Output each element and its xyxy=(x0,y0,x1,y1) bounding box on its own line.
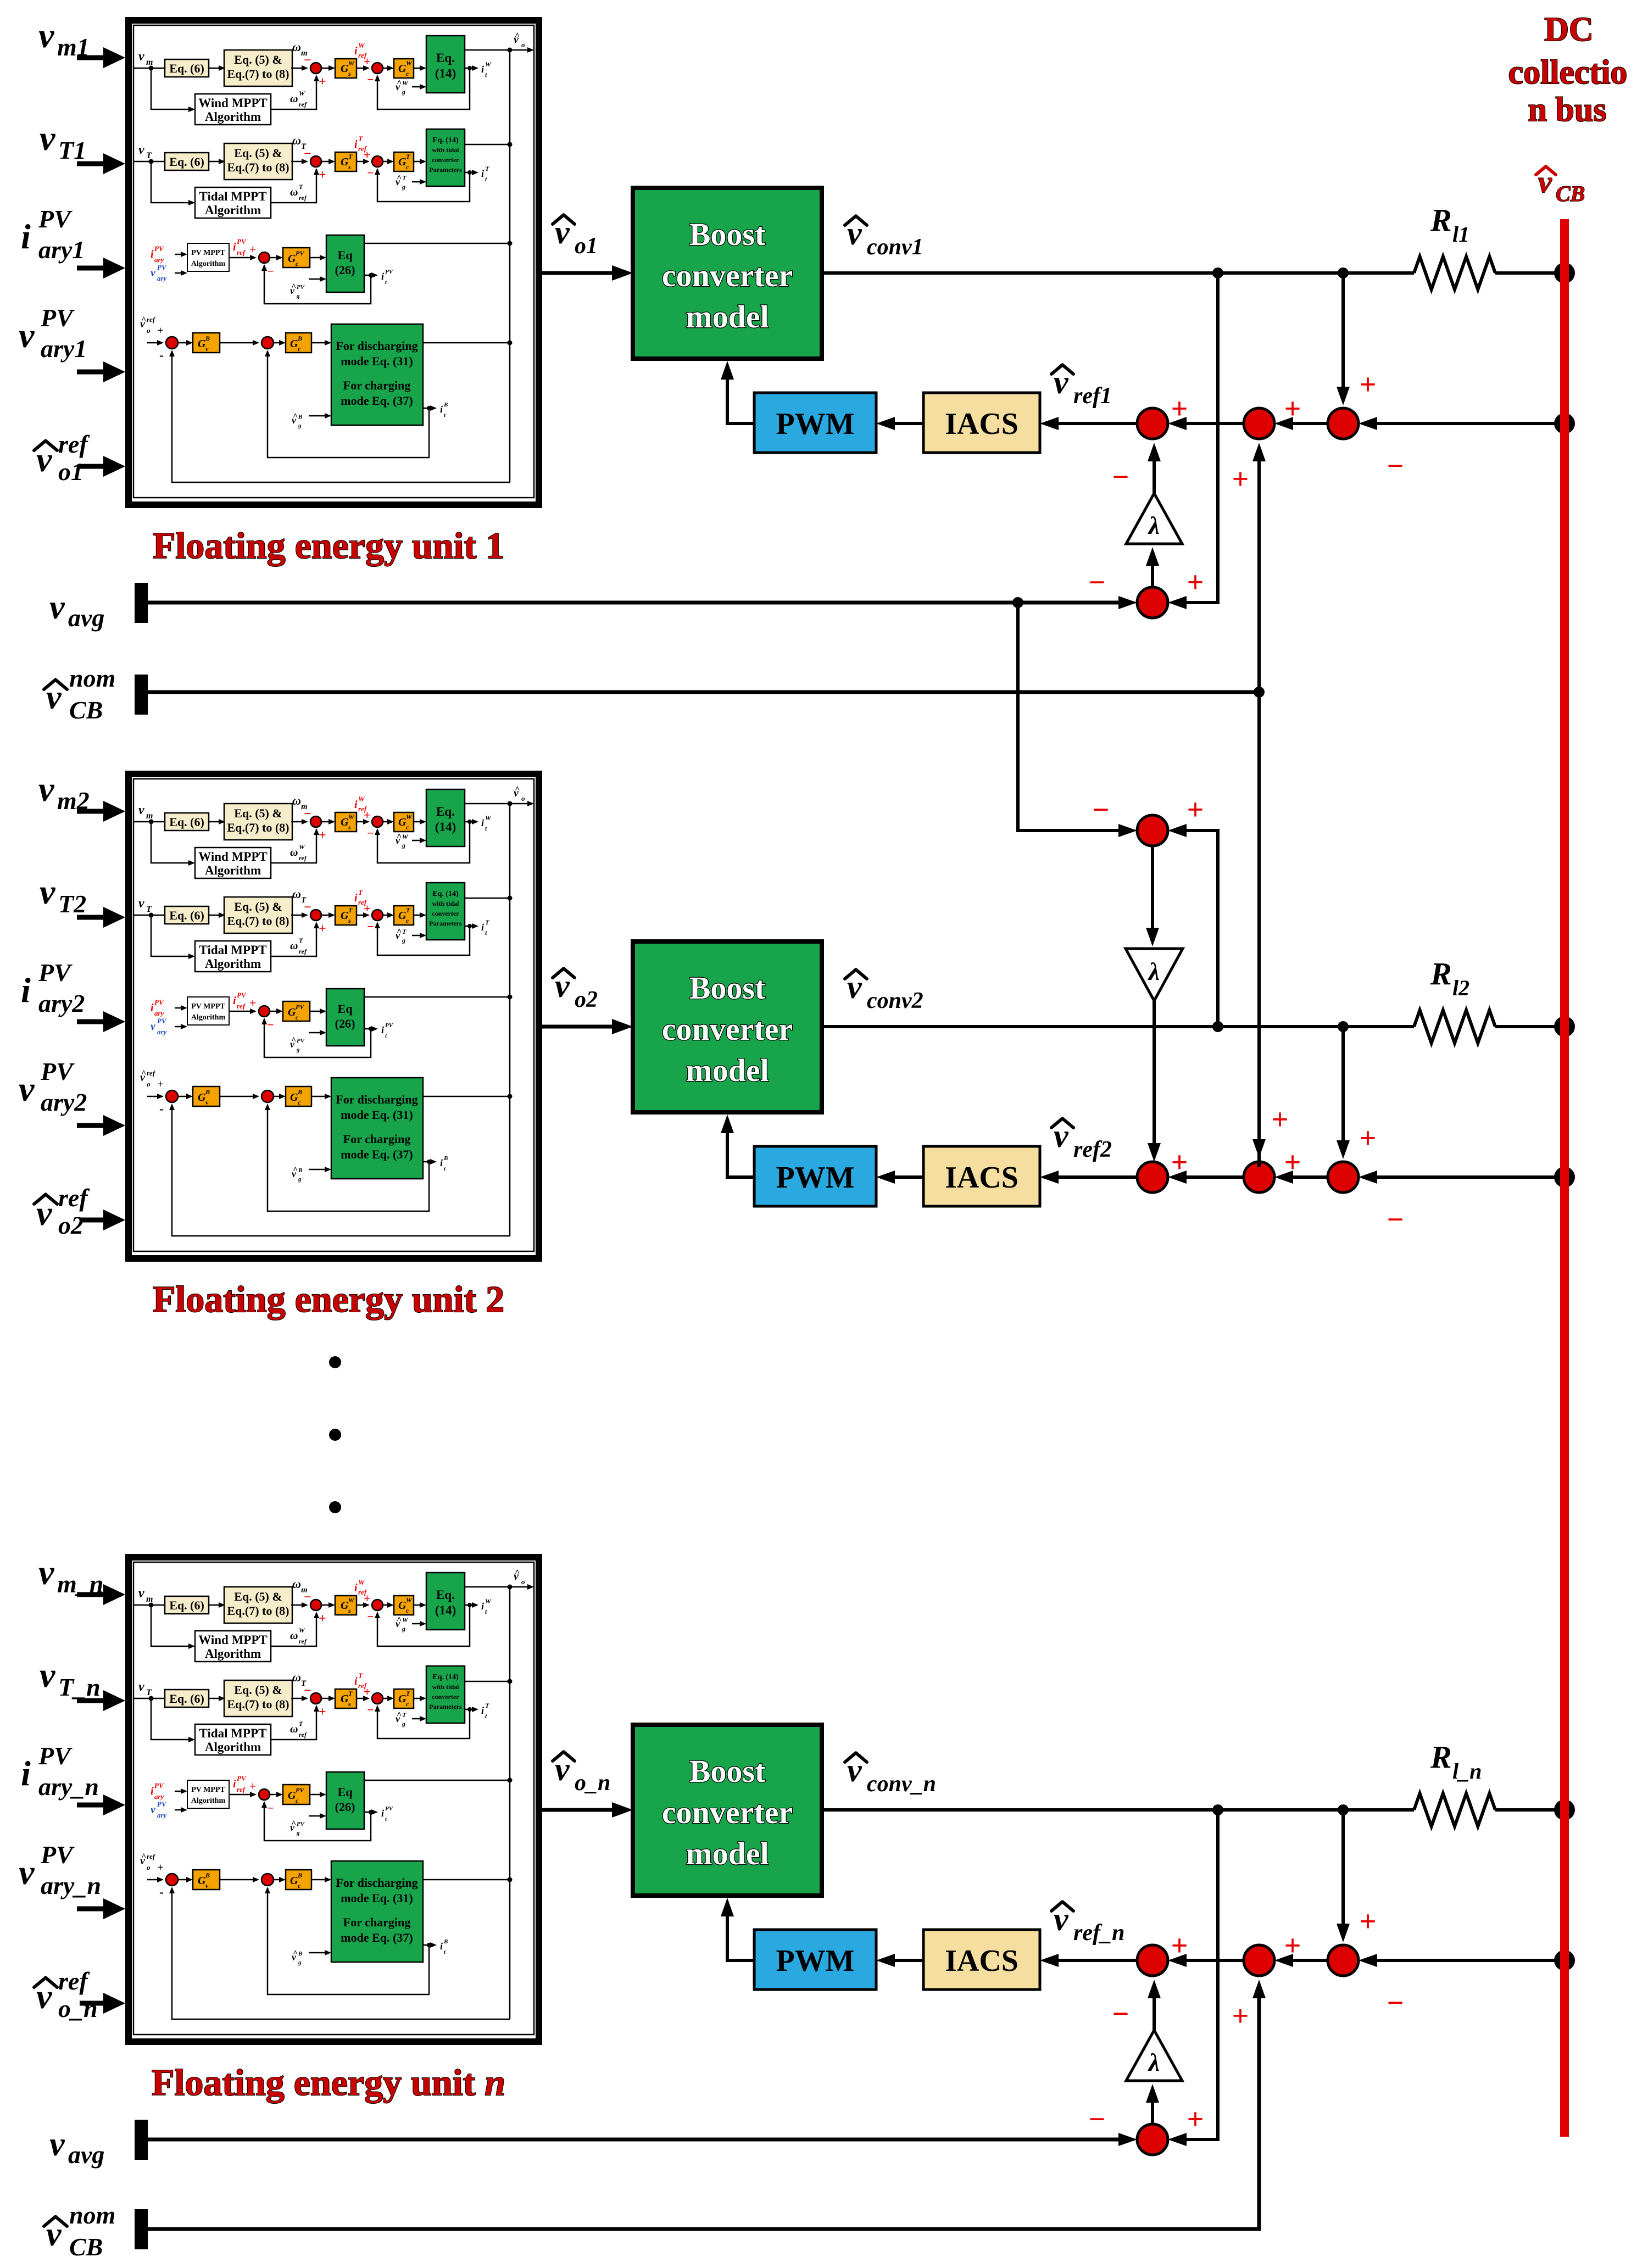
junction on output line x=2445 (unit 2) xyxy=(1338,1021,1349,1032)
v_CB^nom wire (top) xyxy=(147,690,1259,694)
wire sumA to IACS (unit n) xyxy=(1055,1959,1137,1962)
wire from output junction x2217 down to sumD (unit n) xyxy=(1181,1810,1218,2139)
junction on output line x=2445 (unit 1) xyxy=(1338,268,1349,278)
wire lambda down to sumA top (unit 2) xyxy=(1153,1001,1156,1149)
v_CB^nom source tick (top) xyxy=(135,675,148,715)
bus junction at R_l1 xyxy=(1554,263,1575,283)
svg-text:i: i xyxy=(21,971,31,1010)
svg-text:v: v xyxy=(49,2126,65,2163)
svg-text:Floating energy unit 2: Floating energy unit 2 xyxy=(153,1278,504,1320)
summing junction B (unit n) xyxy=(1244,1945,1274,1976)
svg-text:IACS: IACS xyxy=(945,407,1018,441)
svg-text:−: − xyxy=(1089,566,1106,599)
svg-text:n bus: n bus xyxy=(1528,91,1606,129)
svg-text:PWM: PWM xyxy=(776,1161,854,1195)
junction v_CB^nom at x2292 xyxy=(1254,687,1265,698)
input arrow v_m1 xyxy=(77,55,104,60)
summing junction B (unit 1) xyxy=(1244,408,1274,439)
output arrow v_o2 from unit to boost converter xyxy=(542,1025,615,1029)
wire bus to sumC (unit n) xyxy=(1372,1959,1565,1962)
svg-text:v: v xyxy=(38,770,54,809)
svg-text:PWM: PWM xyxy=(776,407,854,441)
PWM block (unit 1) xyxy=(754,393,876,453)
wire sumB to sumA (unit n) xyxy=(1181,1959,1244,1962)
svg-text:Floating energy unit 1: Floating energy unit 1 xyxy=(153,525,504,566)
svg-text:ref2: ref2 xyxy=(1073,1137,1112,1162)
wire sumC to sumB (unit n) xyxy=(1288,1959,1328,1962)
svg-text:o1: o1 xyxy=(575,233,598,259)
svg-text:λ: λ xyxy=(1148,511,1160,539)
svg-text:+: + xyxy=(1171,392,1188,425)
bus junction feedback (unit 2) xyxy=(1554,1167,1575,1188)
svg-text:conv2: conv2 xyxy=(867,988,923,1013)
svg-text:ref1: ref1 xyxy=(1073,383,1112,409)
svg-text:+: + xyxy=(1360,1122,1377,1155)
wire PWM to boost converter (unit 1) xyxy=(727,372,754,423)
input arrow v_ary2^PV xyxy=(77,1123,104,1128)
bus junction feedback (unit n) xyxy=(1554,1950,1575,1971)
wire sumC to sumB (unit 1) xyxy=(1288,422,1328,425)
svg-text:−: − xyxy=(1387,1986,1404,2019)
input arrow v_on^ref xyxy=(80,2001,104,2006)
svg-text:R: R xyxy=(1430,202,1452,238)
svg-text:Boost: Boost xyxy=(689,970,766,1006)
input arrow v_mn xyxy=(77,1592,104,1597)
svg-text:conv_n: conv_n xyxy=(867,1771,936,1797)
svg-text:converter: converter xyxy=(662,1795,793,1830)
svg-text:CB: CB xyxy=(1556,181,1585,206)
wire PWM to boost converter (unit n) xyxy=(727,1909,754,1960)
svg-text:+: + xyxy=(1187,2103,1204,2136)
summing junction C (unit 2) xyxy=(1328,1162,1359,1192)
svg-text:+: + xyxy=(1171,1146,1188,1179)
svg-text:v: v xyxy=(19,1069,35,1108)
svg-text:+: + xyxy=(1284,1929,1301,1962)
svg-text:v: v xyxy=(38,16,54,55)
svg-text:−: − xyxy=(1112,1997,1129,2030)
bus junction feedback (unit 1) xyxy=(1554,413,1575,434)
wire sumA to IACS (unit 1) xyxy=(1055,422,1137,425)
svg-text:conv1: conv1 xyxy=(867,235,923,260)
v_avg wire (bottom) xyxy=(147,2138,1124,2142)
summing junction D (unit n) xyxy=(1137,2124,1168,2155)
svg-text:v: v xyxy=(19,316,35,355)
PWM block (unit n) xyxy=(754,1930,876,1990)
svg-text:DC: DC xyxy=(1544,11,1594,48)
wire sumB to sumA (unit 1) xyxy=(1181,422,1244,425)
resistor R_l1 xyxy=(1414,257,1495,289)
input arrow v_o1^ref xyxy=(80,464,104,469)
svg-text:+: + xyxy=(1232,1999,1249,2032)
svg-text:PV: PV xyxy=(40,304,75,332)
svg-text:ref: ref xyxy=(58,1967,90,1995)
svg-text:l_n: l_n xyxy=(1452,1759,1482,1784)
summing junction D (unit 1, v_avg comparison) xyxy=(1137,587,1168,618)
svg-text:ref: ref xyxy=(58,1184,90,1212)
svg-text:i: i xyxy=(21,217,31,256)
svg-text:o_n: o_n xyxy=(575,1770,610,1796)
wire lambda to sumA bottom (unit 1) xyxy=(1153,456,1156,493)
summing junction A (unit 1) xyxy=(1137,408,1168,439)
v_avg source tick (top) xyxy=(135,583,148,623)
svg-text:+: + xyxy=(1272,1103,1289,1136)
ellipsis dot 1 xyxy=(329,1356,341,1368)
svg-text:nom: nom xyxy=(69,664,115,692)
svg-text:+: + xyxy=(1187,793,1204,826)
svg-text:−: − xyxy=(1387,1203,1404,1236)
input arrow v_Tn xyxy=(77,1698,104,1703)
input arrow v_m2 xyxy=(77,809,104,814)
svg-text:T_n: T_n xyxy=(58,1673,101,1701)
svg-text:λ: λ xyxy=(1148,957,1160,985)
svg-text:+: + xyxy=(1232,462,1249,495)
wire lambda to sumA bottom (unit n) xyxy=(1153,1993,1156,2030)
wire IACS to PWM (unit 1) xyxy=(890,422,923,425)
svg-text:+: + xyxy=(1187,566,1204,599)
svg-text:ary1: ary1 xyxy=(38,236,85,264)
wire IACS to PWM (unit n) xyxy=(890,1959,923,1962)
svg-text:IACS: IACS xyxy=(945,1161,1018,1195)
svg-text:PV: PV xyxy=(38,1742,73,1770)
wire bus to sumC (unit 2) xyxy=(1372,1175,1565,1179)
svg-text:PV: PV xyxy=(38,205,73,233)
boost converter model block (unit 2) xyxy=(633,941,822,1112)
input arrow v_ary1^PV xyxy=(77,370,104,375)
svg-text:PV: PV xyxy=(38,959,73,987)
svg-text:avg: avg xyxy=(68,604,104,632)
wire sumC to sumB (unit 2) xyxy=(1288,1175,1328,1179)
wire bus to sumC (unit 1) xyxy=(1372,422,1565,425)
svg-text:collectio: collectio xyxy=(1508,54,1628,91)
svg-text:+: + xyxy=(1284,392,1301,425)
junction on output line x=2217 (unit 2) xyxy=(1212,1021,1223,1032)
floating energy unit 1 internal diagram xyxy=(133,25,534,498)
v_CB^nom wire (bottom) xyxy=(147,1990,1259,2229)
svg-text:v: v xyxy=(40,1656,55,1695)
wire PWM to boost converter (unit 2) xyxy=(727,1126,754,1177)
junction v_avg to unit2 branch xyxy=(1012,597,1023,608)
floating energy unit 2 outer box xyxy=(129,774,539,1258)
svg-text:converter: converter xyxy=(662,258,793,293)
v_CB^nom source tick (bottom) xyxy=(135,2209,148,2249)
svg-text:v: v xyxy=(40,119,55,158)
wire sumD down to lambda (unit 2) xyxy=(1151,846,1154,934)
wire junction x2445 down to sumC (unit 1) xyxy=(1341,273,1345,393)
IACS block (unit 2) xyxy=(923,1146,1040,1206)
svg-text:v: v xyxy=(49,589,65,626)
svg-text:ary_n: ary_n xyxy=(38,1773,99,1801)
floating energy unit 2 internal diagram xyxy=(133,779,534,1251)
lambda gain triangle (unit n) xyxy=(1126,2030,1182,2081)
wire boost output to bus (unit 1) xyxy=(822,271,1414,275)
input arrow i_ary1^PV xyxy=(77,266,104,271)
svg-text:Boost: Boost xyxy=(689,1753,766,1789)
summing junction D (unit 2) xyxy=(1137,815,1168,846)
wire v_CB^nom down to sumB (unit 2) xyxy=(1257,692,1261,1167)
svg-text:nom: nom xyxy=(69,2201,115,2229)
junction on output line x=2445 (unit n) xyxy=(1338,1804,1349,1815)
input arrow v_o2^ref xyxy=(80,1218,104,1223)
svg-text:o1: o1 xyxy=(58,458,83,486)
svg-text:o2: o2 xyxy=(575,987,598,1012)
svg-text:v: v xyxy=(40,872,55,911)
svg-text:o_n: o_n xyxy=(58,1994,98,2022)
floating energy unit 1 outer box xyxy=(129,20,539,505)
ellipsis dot 2 xyxy=(329,1429,341,1441)
svg-text:T1: T1 xyxy=(58,136,86,164)
wire sumD to lambda (unit n) xyxy=(1151,2097,1154,2124)
svg-text:l1: l1 xyxy=(1452,222,1469,247)
svg-text:−: − xyxy=(1387,449,1404,482)
wire junction x2445 down to sumC (unit n) xyxy=(1341,1810,1345,1930)
wire sumD to lambda (unit 1) xyxy=(1151,560,1154,587)
svg-text:+: + xyxy=(1360,1905,1377,1938)
svg-text:avg: avg xyxy=(68,2141,104,2169)
floating energy unit n outer box xyxy=(129,1557,539,2042)
wire sumA to IACS (unit 2) xyxy=(1055,1175,1137,1179)
svg-text:model: model xyxy=(686,1052,769,1088)
input arrow i_ary2^PV xyxy=(77,1019,104,1024)
svg-text:R: R xyxy=(1430,956,1452,991)
svg-text:−: − xyxy=(1089,2103,1106,2136)
lambda gain triangle (unit 1) xyxy=(1126,493,1182,544)
svg-text:model: model xyxy=(686,1836,769,1871)
svg-text:PWM: PWM xyxy=(776,1944,854,1978)
v_avg source tick (bottom) xyxy=(135,2120,148,2160)
resistor R_l_n xyxy=(1414,1793,1495,1826)
boost converter model block (unit n) xyxy=(633,1725,822,1896)
wire boost output to bus (unit n) xyxy=(822,1808,1414,1812)
v_avg wire (top) xyxy=(147,601,1124,605)
svg-text:PV: PV xyxy=(40,1057,75,1085)
PWM block (unit 2) xyxy=(754,1146,876,1206)
svg-text:Floating energy unit n: Floating energy unit n xyxy=(152,2061,505,2103)
wire from output junction x2217 up to sumD (unit 2) xyxy=(1181,831,1218,1027)
svg-text:ary2: ary2 xyxy=(41,1088,87,1116)
svg-text:+: + xyxy=(1360,368,1377,401)
summing junction A (unit n) xyxy=(1137,1945,1168,1976)
svg-text:R: R xyxy=(1430,1739,1452,1775)
bus junction at R_l2 xyxy=(1554,1016,1575,1037)
wire v_CB^nom up to sumB (unit 1) xyxy=(1257,452,1261,692)
svg-text:Boost: Boost xyxy=(689,216,766,252)
wire sumB to sumA (unit 2) xyxy=(1181,1175,1244,1179)
summing junction C (unit n) xyxy=(1328,1945,1359,1976)
svg-text:ary1: ary1 xyxy=(41,335,87,363)
svg-text:v: v xyxy=(19,1853,35,1892)
svg-text:i: i xyxy=(21,1754,31,1793)
bus junction at R_l_n xyxy=(1554,1799,1575,1820)
wire boost output to bus (unit 2) xyxy=(822,1025,1414,1028)
boost converter model block (unit 1) xyxy=(633,188,822,359)
IACS block (unit 1) xyxy=(923,393,1040,453)
svg-text:CB: CB xyxy=(69,2233,103,2261)
wire v_avg branch down to sumD (unit 2) xyxy=(1018,603,1126,831)
svg-text:T2: T2 xyxy=(58,890,86,918)
svg-text:+: + xyxy=(1171,1929,1188,1962)
summing junction A (unit 2) xyxy=(1137,1162,1168,1192)
svg-text:l2: l2 xyxy=(1452,976,1469,1000)
output arrow v_o1 from unit to boost converter xyxy=(542,271,615,275)
svg-text:−: − xyxy=(1093,793,1110,826)
svg-text:ary2: ary2 xyxy=(38,989,85,1017)
wire IACS to PWM (unit 2) xyxy=(890,1175,923,1179)
input arrow i_aryn^PV xyxy=(77,1803,104,1808)
svg-text:model: model xyxy=(686,299,769,335)
svg-text:converter: converter xyxy=(662,1011,793,1047)
resistor R_l2 xyxy=(1414,1010,1495,1043)
svg-text:ref_n: ref_n xyxy=(1073,1920,1124,1946)
svg-text:+: + xyxy=(1284,1146,1301,1179)
junction on output line x=2217 (unit n) xyxy=(1212,1804,1223,1815)
svg-text:−: − xyxy=(1112,460,1129,493)
svg-text:IACS: IACS xyxy=(945,1944,1018,1978)
svg-text:v: v xyxy=(38,1553,54,1592)
output arrow v_on from unit to boost converter xyxy=(542,1808,615,1812)
input arrow v_T2 xyxy=(77,915,104,920)
DC collection bus (red vertical line) xyxy=(1560,219,1569,2137)
svg-text:o2: o2 xyxy=(58,1211,83,1239)
IACS block (unit n) xyxy=(923,1930,1040,1990)
input arrow v_aryn^PV xyxy=(77,1907,104,1912)
svg-text:PV: PV xyxy=(40,1841,75,1869)
summing junction B (unit 2) xyxy=(1244,1162,1274,1192)
wire from output junction x2217 down to sumD (unit 1) xyxy=(1181,273,1218,603)
lambda gain triangle (unit 2, pointing down) xyxy=(1126,949,1183,1001)
svg-text:ary_n: ary_n xyxy=(41,1871,101,1899)
svg-text:CB: CB xyxy=(69,696,103,724)
summing junction C (unit 1) xyxy=(1328,408,1359,439)
wire junction x2445 down to sumC (unit 2) xyxy=(1341,1027,1345,1146)
svg-text:λ: λ xyxy=(1148,2048,1160,2076)
junction on output line x=2217 (unit 1) xyxy=(1212,268,1223,278)
floating energy unit n internal diagram xyxy=(133,1562,534,2035)
ellipsis dot 3 xyxy=(329,1501,341,1513)
input arrow v_T1 xyxy=(77,161,104,166)
svg-text:ref: ref xyxy=(58,430,90,458)
